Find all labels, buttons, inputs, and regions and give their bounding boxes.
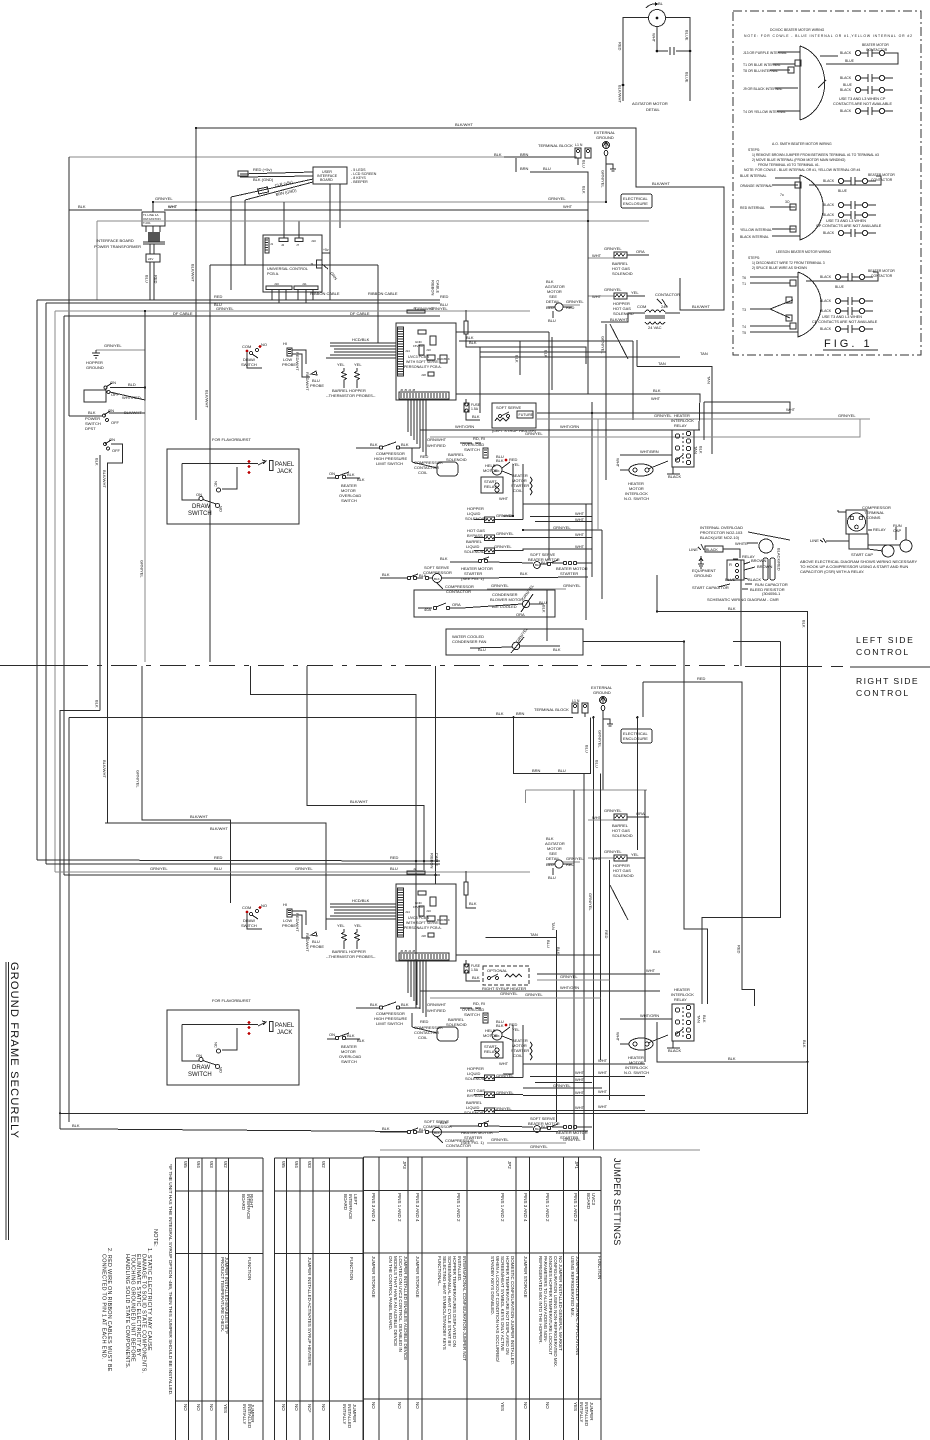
svg-text:PERSONALITY PCB A.: PERSONALITY PCB A. xyxy=(404,365,442,369)
svg-text:BLK: BLK xyxy=(440,556,448,561)
svg-text:BLK/WHT: BLK/WHT xyxy=(205,390,210,408)
svg-text:POWER TRANSFORMER: POWER TRANSFORMER xyxy=(94,244,141,249)
svg-text:COM: COM xyxy=(637,304,646,309)
svg-text:GRN/YEL: GRN/YEL xyxy=(563,1137,581,1142)
svg-text:INITIALLY: INITIALLY xyxy=(342,1404,347,1424)
svg-text:BLK: BLK xyxy=(347,472,355,477)
air cooled condenser box (top only) xyxy=(414,583,555,617)
svg-text:L1 N: L1 N xyxy=(572,699,580,703)
electrical enclosure label (bottom) xyxy=(621,729,652,743)
svg-text:W5: W5 xyxy=(281,1161,286,1168)
svg-text:SOFT SERVE: SOFT SERVE xyxy=(496,405,522,410)
svg-text:BLK: BLK xyxy=(357,477,365,482)
solenoid row template xyxy=(474,517,523,523)
divider line between left/right side control xyxy=(0,635,930,698)
svg-text:FIG. 1: FIG. 1 xyxy=(824,338,873,350)
svg-text:WHT/RED: WHT/RED xyxy=(122,395,141,400)
overload / start relay cluster (top) xyxy=(412,436,532,501)
svg-text:1) DISCONNECT WIRE T2 FROM TE: 1) DISCONNECT WIRE T2 FROM TERMINAL 3 xyxy=(752,261,825,265)
svg-text:ORA: ORA xyxy=(636,249,645,254)
svg-text:BLK: BLK xyxy=(556,947,561,955)
svg-text:SWITCH: SWITCH xyxy=(188,511,212,517)
svg-text:RIGHT SIDE: RIGHT SIDE xyxy=(856,676,919,686)
svg-text:COIL: COIL xyxy=(513,488,523,493)
svg-text:USE T3 AND L3 WHEN: USE T3 AND L3 WHEN xyxy=(822,315,862,319)
small parts on board xyxy=(418,330,426,334)
svg-text:J2: J2 xyxy=(281,243,285,247)
svg-text:BLK/WHT: BLK/WHT xyxy=(618,85,623,103)
svg-text:--THERMISTOR PROBES--: --THERMISTOR PROBES-- xyxy=(326,393,376,398)
wire BLK bottom step (top half) xyxy=(657,575,808,666)
svg-text:BLK: BLK xyxy=(728,606,736,611)
svg-text:WHT: WHT xyxy=(598,1104,608,1109)
svg-text:YEL: YEL xyxy=(354,362,362,367)
svg-text:GRN/YEL: GRN/YEL xyxy=(295,866,313,871)
svg-text:DF CABLE: DF CABLE xyxy=(350,311,370,316)
svg-text:NO: NO xyxy=(281,1404,286,1411)
syrup heater optional box (bottom) xyxy=(482,966,529,996)
svg-text:SOLENOID: SOLENOID xyxy=(465,516,486,521)
svg-text:PINS 1 AND 2: PINS 1 AND 2 xyxy=(573,1193,578,1222)
svg-text:CONDENSER FAN: CONDENSER FAN xyxy=(452,639,487,644)
svg-text:ORA: ORA xyxy=(452,602,461,607)
svg-text:BLK: BLK xyxy=(494,152,502,157)
svg-text:GRN/YEL: GRN/YEL xyxy=(566,299,584,304)
svg-text:OFF: OFF xyxy=(111,420,120,425)
enclosure box top xyxy=(97,220,649,222)
svg-text:W3: W3 xyxy=(209,1161,214,1168)
wire down from motor xyxy=(657,27,668,52)
svg-text:J10: J10 xyxy=(426,348,431,352)
svg-text:GRN/YEL: GRN/YEL xyxy=(496,531,514,536)
svg-text:NO: NO xyxy=(209,1404,214,1411)
wire step from divider xyxy=(251,666,417,1008)
svg-text:RED (+5v): RED (+5v) xyxy=(253,167,272,172)
NOTE block (rotated) xyxy=(101,1229,159,1373)
heater interlock relay (top) xyxy=(671,413,694,467)
svg-text:CABLE: CABLE xyxy=(436,280,441,293)
top half: main enclosure outline + rails xyxy=(37,122,724,875)
hi low probe connector xyxy=(287,348,292,356)
svg-text:WHT: WHT xyxy=(575,1090,585,1095)
svg-text:YES: YES xyxy=(223,1404,228,1413)
svg-text:24 VAC: 24 VAC xyxy=(648,325,662,330)
svg-text:W2: W2 xyxy=(223,1161,228,1168)
svg-text:WHITE: WHITE xyxy=(735,541,748,546)
svg-text:BRN: BRN xyxy=(516,711,525,716)
ground hopper xyxy=(86,343,145,370)
svg-text:RED/WHT: RED/WHT xyxy=(295,352,300,371)
svg-text:DF CABLE: DF CABLE xyxy=(173,311,193,316)
motor M compressor xyxy=(492,465,502,475)
svg-text:ENCLOSURE: ENCLOSURE xyxy=(623,736,648,741)
svg-text:DC/VDC BEATER MOTOR WIRING: DC/VDC BEATER MOTOR WIRING xyxy=(770,28,825,32)
svg-text:BLUE: BLUE xyxy=(845,59,855,63)
svg-text:SWITCH: SWITCH xyxy=(241,362,257,367)
svg-text:BLU: BLU xyxy=(214,866,222,871)
svg-text:BLK/WHT: BLK/WHT xyxy=(652,181,670,186)
svg-text:J6 J5 J4 J8: J6 J5 J4 J8 xyxy=(400,388,416,392)
svg-text:BLK: BLK xyxy=(802,1040,807,1048)
svg-text:BLK: BLK xyxy=(544,350,549,358)
svg-text:HCD/BLK: HCD/BLK xyxy=(352,337,370,342)
svg-text:BLK: BLK xyxy=(542,605,547,613)
svg-text:T-001: T-001 xyxy=(143,221,151,225)
svg-text:USE T3 AND L3 WHEN CP: USE T3 AND L3 WHEN CP xyxy=(839,97,886,101)
svg-text:J18: J18 xyxy=(421,373,426,377)
terminal block top xyxy=(494,130,616,221)
svg-text:GRN/YEL: GRN/YEL xyxy=(548,196,566,201)
rails right bottom xyxy=(556,930,558,1122)
svg-text:FUNCTION: FUNCTION xyxy=(349,1257,354,1280)
svg-text:GRN/YEL: GRN/YEL xyxy=(140,560,145,578)
wire BLK/WHT steps xyxy=(142,666,231,903)
solenoid rows (bottom) xyxy=(464,1025,645,1115)
thermistors R barrel/hopper xyxy=(342,368,347,383)
svg-text:WHT: WHT xyxy=(575,1070,585,1075)
svg-text:ORA: ORA xyxy=(516,612,525,617)
svg-text:PANEL: PANEL xyxy=(275,462,295,468)
right column solenoids + agitator (bottom) xyxy=(588,808,649,838)
svg-text:JUMPER INSTALLED-ACTIVATES SYR: JUMPER INSTALLED-ACTIVATES SYRUP HEATERS xyxy=(307,1257,312,1366)
svg-text:BRN: BRN xyxy=(532,768,541,773)
svg-text:NO: NO xyxy=(196,1404,201,1411)
svg-text:BLUE: BLUE xyxy=(725,577,736,582)
svg-text:RED: RED xyxy=(736,945,741,954)
svg-text:BLU: BLU xyxy=(145,275,150,283)
wire GRN/YEL rail xyxy=(152,201,606,203)
svg-text:STANDBY KEYS DISABLED.: STANDBY KEYS DISABLED. xyxy=(490,1256,495,1315)
svg-text:WHT/ORN: WHT/ORN xyxy=(560,424,579,429)
svg-text:- BEEPER: - BEEPER xyxy=(351,180,368,184)
flavorburst box (bottom) xyxy=(167,998,299,1085)
UVC3 control board cluster (top) xyxy=(326,306,481,456)
cross wires bottom xyxy=(486,937,557,939)
svg-text:L1 N: L1 N xyxy=(575,143,583,147)
UVC3 table text xyxy=(371,1161,602,1427)
svg-text:GRN/YEL: GRN/YEL xyxy=(598,730,603,748)
compressor contactor row (top) xyxy=(380,565,474,594)
svg-text:WHT: WHT xyxy=(575,1077,585,1082)
svg-text:HI: HI xyxy=(283,341,287,346)
svg-text:BLU: BLU xyxy=(543,166,551,171)
svg-text:J11: J11 xyxy=(302,282,307,286)
svg-text:RED: RED xyxy=(604,930,609,939)
svg-text:GRN/YEL: GRN/YEL xyxy=(530,1144,548,1149)
svg-text:FUNCTION: FUNCTION xyxy=(597,1256,602,1279)
svg-text:GRN/YEL: GRN/YEL xyxy=(491,1137,509,1142)
svg-text:WHT: WHT xyxy=(592,253,602,258)
motor U3 outline xyxy=(798,272,821,337)
clusters (bottom) xyxy=(412,1001,532,1066)
svg-text:PCB A.: PCB A. xyxy=(267,272,279,276)
svg-text:BLK: BLK xyxy=(653,388,661,393)
svg-text:GRN/YEL: GRN/YEL xyxy=(563,583,581,588)
compressor terminal detail (top only) xyxy=(800,505,917,574)
wire right xyxy=(666,18,691,102)
svg-text:BOARD: BOARD xyxy=(586,1193,591,1210)
svg-text:NO: NO xyxy=(397,1402,402,1409)
svg-text:BLK: BLK xyxy=(472,414,480,419)
svg-text:BLACK/RED: BLACK/RED xyxy=(777,548,782,571)
svg-text:WHT/ORN: WHT/ORN xyxy=(560,985,579,990)
svg-text:BLK: BLK xyxy=(553,647,561,652)
transformer T2 24VAC + contactor (top) xyxy=(601,292,680,330)
svg-text:BLK: BLK xyxy=(95,458,100,466)
wire gray rail xyxy=(69,156,577,158)
svg-text:GRN/YEL: GRN/YEL xyxy=(553,525,571,530)
svg-text:CONTACTOR: CONTACTOR xyxy=(655,292,680,297)
svg-text:BLK: BLK xyxy=(582,186,587,194)
svg-text:PINS 1 AND 2: PINS 1 AND 2 xyxy=(545,1193,550,1222)
svg-text:JUMPER STORAGE: JUMPER STORAGE xyxy=(415,1256,420,1298)
svg-text:BLK: BLK xyxy=(466,335,474,340)
svg-text:GRN/YEL: GRN/YEL xyxy=(104,343,122,348)
svg-text:BLK/WHT: BLK/WHT xyxy=(190,814,208,819)
contactor contacts row1 xyxy=(840,49,893,57)
svg-text:BLACK: BLACK xyxy=(840,51,852,55)
panel jack J xyxy=(270,461,274,471)
svg-text:BLUE: BLUE xyxy=(685,30,690,41)
svg-text:BYPASS: BYPASS xyxy=(467,1093,483,1098)
svg-text:7o: 7o xyxy=(780,193,784,197)
hopper hot gas solenoid xyxy=(588,295,614,297)
wires below board xyxy=(408,399,426,456)
svg-text:+5v: +5v xyxy=(323,248,329,252)
FIG 1 detail box xyxy=(733,11,921,355)
svg-text:T4: T4 xyxy=(742,325,746,329)
beater motor overload switch (top) xyxy=(327,471,365,503)
svg-text:NO: NO xyxy=(219,506,224,512)
svg-text:BLACK(USE NO2-10): BLACK(USE NO2-10) xyxy=(700,535,740,540)
svg-text:CP CONTACTS ARE NOT AVAILABLE: CP CONTACTS ARE NOT AVAILABLE xyxy=(816,224,882,228)
svg-text:CONNECTED TO PIN 1 AT EACH END: CONNECTED TO PIN 1 AT EACH END. xyxy=(101,1254,107,1360)
svg-text:GRN/YEL: GRN/YEL xyxy=(588,893,593,911)
svg-text:RED: RED xyxy=(154,275,159,284)
svg-text:TAN: TAN xyxy=(658,361,666,366)
agitator motor (in-circuit, top) xyxy=(545,279,584,323)
motor U1 outline xyxy=(800,46,825,120)
svg-text:BLK/WHT: BLK/WHT xyxy=(610,317,628,322)
capacitor C agitator xyxy=(669,47,671,55)
svg-text:NO: NO xyxy=(183,1404,188,1411)
terminal block bottom xyxy=(69,685,613,1150)
svg-text:LIMIT SWITCH: LIMIT SWITCH xyxy=(376,461,403,466)
svg-text:BLU: BLU xyxy=(582,160,587,168)
svg-text:BLK/WHT: BLK/WHT xyxy=(191,264,196,282)
svg-text:SOLENOID: SOLENOID xyxy=(612,271,633,276)
svg-text:NO: NO xyxy=(371,1402,376,1409)
svg-text:GRN/YEL: GRN/YEL xyxy=(216,306,234,311)
svg-text:BLUE INTERNAL: BLUE INTERNAL xyxy=(740,174,767,178)
svg-text:GRN/YEL: GRN/YEL xyxy=(525,992,543,997)
svg-text:BLUE: BLUE xyxy=(835,285,845,289)
svg-text:DETAIL: DETAIL xyxy=(646,107,660,112)
svg-text:RED: RED xyxy=(214,294,223,299)
svg-text:BLU: BLU xyxy=(390,866,398,871)
svg-text:OFF: OFF xyxy=(112,448,121,453)
svg-text:WHT: WHT xyxy=(646,968,656,973)
top right: solenoids on right column xyxy=(588,246,649,276)
svg-text:LINE: LINE xyxy=(689,547,698,552)
svg-text:INTERFACE BOARD: INTERFACE BOARD xyxy=(96,238,134,243)
svg-text:GRN/WHT: GRN/WHT xyxy=(415,306,435,311)
svg-text:J10: J10 xyxy=(274,282,279,286)
svg-text:RELAY: RELAY xyxy=(873,527,886,532)
svg-text:WHT: WHT xyxy=(598,1089,608,1094)
wire diagonal blk/wht bottom xyxy=(610,885,628,920)
svg-text:YELLOW INTERNAL: YELLOW INTERNAL xyxy=(740,228,772,232)
svg-text:WHT: WHT xyxy=(652,33,657,43)
svg-text:(304056-1: (304056-1 xyxy=(762,591,781,596)
fuse F1 xyxy=(464,403,469,412)
svg-text:GRN/YEL: GRN/YEL xyxy=(136,770,141,788)
ribbon connector J16 xyxy=(398,327,404,376)
svg-text:UNIVERSAL CONTROL: UNIVERSAL CONTROL xyxy=(267,267,308,271)
svg-text:BLK: BLK xyxy=(515,355,520,363)
universal control PCB A box xyxy=(245,202,338,303)
svg-text:STEPS:: STEPS: xyxy=(748,256,760,260)
svg-text:TERMINAL BLOCK: TERMINAL BLOCK xyxy=(538,143,573,148)
beater motor row (top) xyxy=(440,552,592,581)
svg-text:WHT: WHT xyxy=(592,294,602,299)
svg-text:T1: T1 xyxy=(742,282,746,286)
svg-text:*IF THE UNIT HAS THE INTEGRAL: *IF THE UNIT HAS THE INTEGRAL SYRUP OPTI… xyxy=(167,1164,173,1395)
solenoid row 2 hot gas bypass xyxy=(467,528,523,541)
svg-text:PROBE: PROBE xyxy=(310,383,324,388)
svg-text:PINS 1 AND 2: PINS 1 AND 2 xyxy=(500,1193,505,1222)
svg-text:W4: W4 xyxy=(196,1161,201,1168)
svg-text:BLK/WHT: BLK/WHT xyxy=(692,304,710,309)
wire left xyxy=(623,18,649,102)
svg-text:BROWN: BROWN xyxy=(751,558,766,563)
svg-text:GROUND: GROUND xyxy=(694,573,712,578)
svg-text:ON: ON xyxy=(329,471,335,476)
svg-text:GRN/YEL: GRN/YEL xyxy=(604,287,622,292)
svg-text:BEATER MOTOR: BEATER MOTOR xyxy=(868,173,895,177)
svg-text:JUMPER SETTINGS: JUMPER SETTINGS xyxy=(612,1158,622,1246)
svg-text:BLK: BLK xyxy=(382,572,390,577)
svg-text:BRN: BRN xyxy=(520,166,529,171)
svg-text:CONTACTOR: CONTACTOR xyxy=(871,274,893,278)
wire bundle RED/BLU xyxy=(37,299,440,301)
svg-text:GRN/YEL: GRN/YEL xyxy=(494,1106,512,1111)
svg-text:CAP: CAP xyxy=(893,528,902,533)
svg-text:NOTE: FOR COWLE - BLUE INTERNA: NOTE: FOR COWLE - BLUE INTERNAL OR #1, Y… xyxy=(744,168,860,172)
svg-text:T6: T6 xyxy=(742,276,746,280)
wire WHT rail xyxy=(165,209,588,211)
svg-text:RED INTERNAL: RED INTERNAL xyxy=(740,206,765,210)
svg-text:NO: NO xyxy=(261,342,267,347)
table UVC3 board grid xyxy=(363,1156,601,1158)
svg-text:WHT: WHT xyxy=(598,1070,608,1075)
svg-text:RIBBON CABLE: RIBBON CABLE xyxy=(368,291,398,296)
svg-text:RED: RED xyxy=(440,294,449,299)
svg-text:BLD: BLD xyxy=(128,382,136,387)
svg-text:BLK (GND): BLK (GND) xyxy=(253,177,274,182)
wires entering board left xyxy=(326,343,396,358)
svg-text:RED/BLK: RED/BLK xyxy=(437,357,450,361)
svg-text:2) SPLICE BLUE WIRE AS SHOWN: 2) SPLICE BLUE WIRE AS SHOWN xyxy=(752,266,807,270)
svg-text:GROUND: GROUND xyxy=(596,135,614,140)
water cooled condenser fan box (top only) xyxy=(446,626,583,655)
svg-text:BLU: BLU xyxy=(558,768,566,773)
svg-text:WHT: WHT xyxy=(575,511,585,516)
svg-text:J1: J1 xyxy=(270,242,274,246)
svg-text:COIL: COIL xyxy=(418,470,428,475)
svg-text:DPST: DPST xyxy=(85,426,96,431)
ground frame securely vertical note xyxy=(6,962,20,1240)
svg-text:RED: RED xyxy=(618,42,623,51)
svg-text:ORN/WHT: ORN/WHT xyxy=(427,437,447,442)
svg-text:BLU: BLU xyxy=(595,760,600,768)
svg-text:OPTIONAL: OPTIONAL xyxy=(487,968,508,973)
svg-text:SCHEMATIC WIRING DIAGRAM - CMR: SCHEMATIC WIRING DIAGRAM - CMR xyxy=(707,597,779,602)
rails left xyxy=(195,128,197,420)
right rails (top half) xyxy=(605,324,607,480)
svg-text:WHT/ORN: WHT/ORN xyxy=(455,424,474,429)
svg-text:PINS 3 AND 4: PINS 3 AND 4 xyxy=(523,1193,528,1222)
svg-text:ON: ON xyxy=(108,408,114,413)
svg-text:N.O. SWITCH: N.O. SWITCH xyxy=(624,496,649,501)
svg-text:AGITATOR MOTOR: AGITATOR MOTOR xyxy=(632,101,668,106)
svg-text:TAN: TAN xyxy=(707,376,712,384)
svg-text:REFRIGERATED MIX INTO THE HOPP: REFRIGERATED MIX INTO THE HOPPER. xyxy=(538,1256,543,1344)
svg-text:BLK: BLK xyxy=(401,442,409,447)
svg-text:LINE: LINE xyxy=(810,538,819,543)
svg-text:GRN/YEL: GRN/YEL xyxy=(500,991,518,996)
long WHT wires to relay area xyxy=(537,402,790,413)
compressor schematic CMR (top only) xyxy=(689,525,790,602)
wire bundle RED/BLU (bottom) xyxy=(37,860,440,864)
svg-text:WHT: WHT xyxy=(575,544,585,549)
svg-text:GROUND FRAME SECURELY: GROUND FRAME SECURELY xyxy=(8,962,20,1139)
svg-text:BLACK INTERNAL: BLACK INTERNAL xyxy=(740,235,769,239)
svg-text:GRN/YEL: GRN/YEL xyxy=(150,866,168,871)
svg-text:BLK: BLK xyxy=(802,620,807,628)
svg-text:BLUE: BLUE xyxy=(843,83,853,87)
svg-text:START CAP: START CAP xyxy=(851,552,873,557)
svg-text:2) MOVE BLUE INTERNAL (FROM M: 2) MOVE BLUE INTERNAL (FROM MOTOR MAIN W… xyxy=(752,158,845,162)
svg-text:W4: W4 xyxy=(294,1161,299,1168)
svg-text:CONNS: CONNS xyxy=(866,515,881,520)
svg-text:BLUE: BLUE xyxy=(685,72,690,83)
svg-text:ON THE CONTROL PANEL BOARD.: ON THE CONTROL PANEL BOARD. xyxy=(388,1256,393,1330)
svg-text:YES: YES xyxy=(500,1402,505,1411)
svg-text:GRN/YEL: GRN/YEL xyxy=(604,246,622,251)
svg-text:J10: J10 xyxy=(311,239,316,243)
svg-text:CABLE: CABLE xyxy=(435,853,440,866)
svg-text:PRODUCT TEMPERATURE CHECK.: PRODUCT TEMPERATURE CHECK. xyxy=(220,1257,225,1332)
svg-text:COMPRESSOR: COMPRESSOR xyxy=(423,570,452,575)
svg-text:NO: NO xyxy=(321,1404,326,1411)
svg-text:BLU: BLU xyxy=(546,940,551,948)
svg-text:GRN/YEL: GRN/YEL xyxy=(601,170,606,188)
resistor R vertical right xyxy=(464,321,468,334)
compressor high pressure limit switch (top) xyxy=(356,442,420,466)
contact NO xyxy=(217,488,221,492)
svg-text:RED/WHT: RED/WHT xyxy=(305,372,310,391)
svg-text:GRN/YEL: GRN/YEL xyxy=(155,196,173,201)
transformer T1 interface board power transformer xyxy=(69,202,196,300)
svg-text:CONTACTS ARE NOT AVAILABLE: CONTACTS ARE NOT AVAILABLE xyxy=(833,102,892,106)
svg-text:JP3: JP3 xyxy=(402,1161,407,1169)
svg-text:BLK: BLK xyxy=(370,442,378,447)
svg-text:BLK: BLK xyxy=(496,711,504,716)
svg-text:PINS 3 AND 4: PINS 3 AND 4 xyxy=(371,1193,376,1222)
svg-text:BLK/WHT: BLK/WHT xyxy=(455,122,473,127)
capacitors C run/start xyxy=(763,558,768,580)
